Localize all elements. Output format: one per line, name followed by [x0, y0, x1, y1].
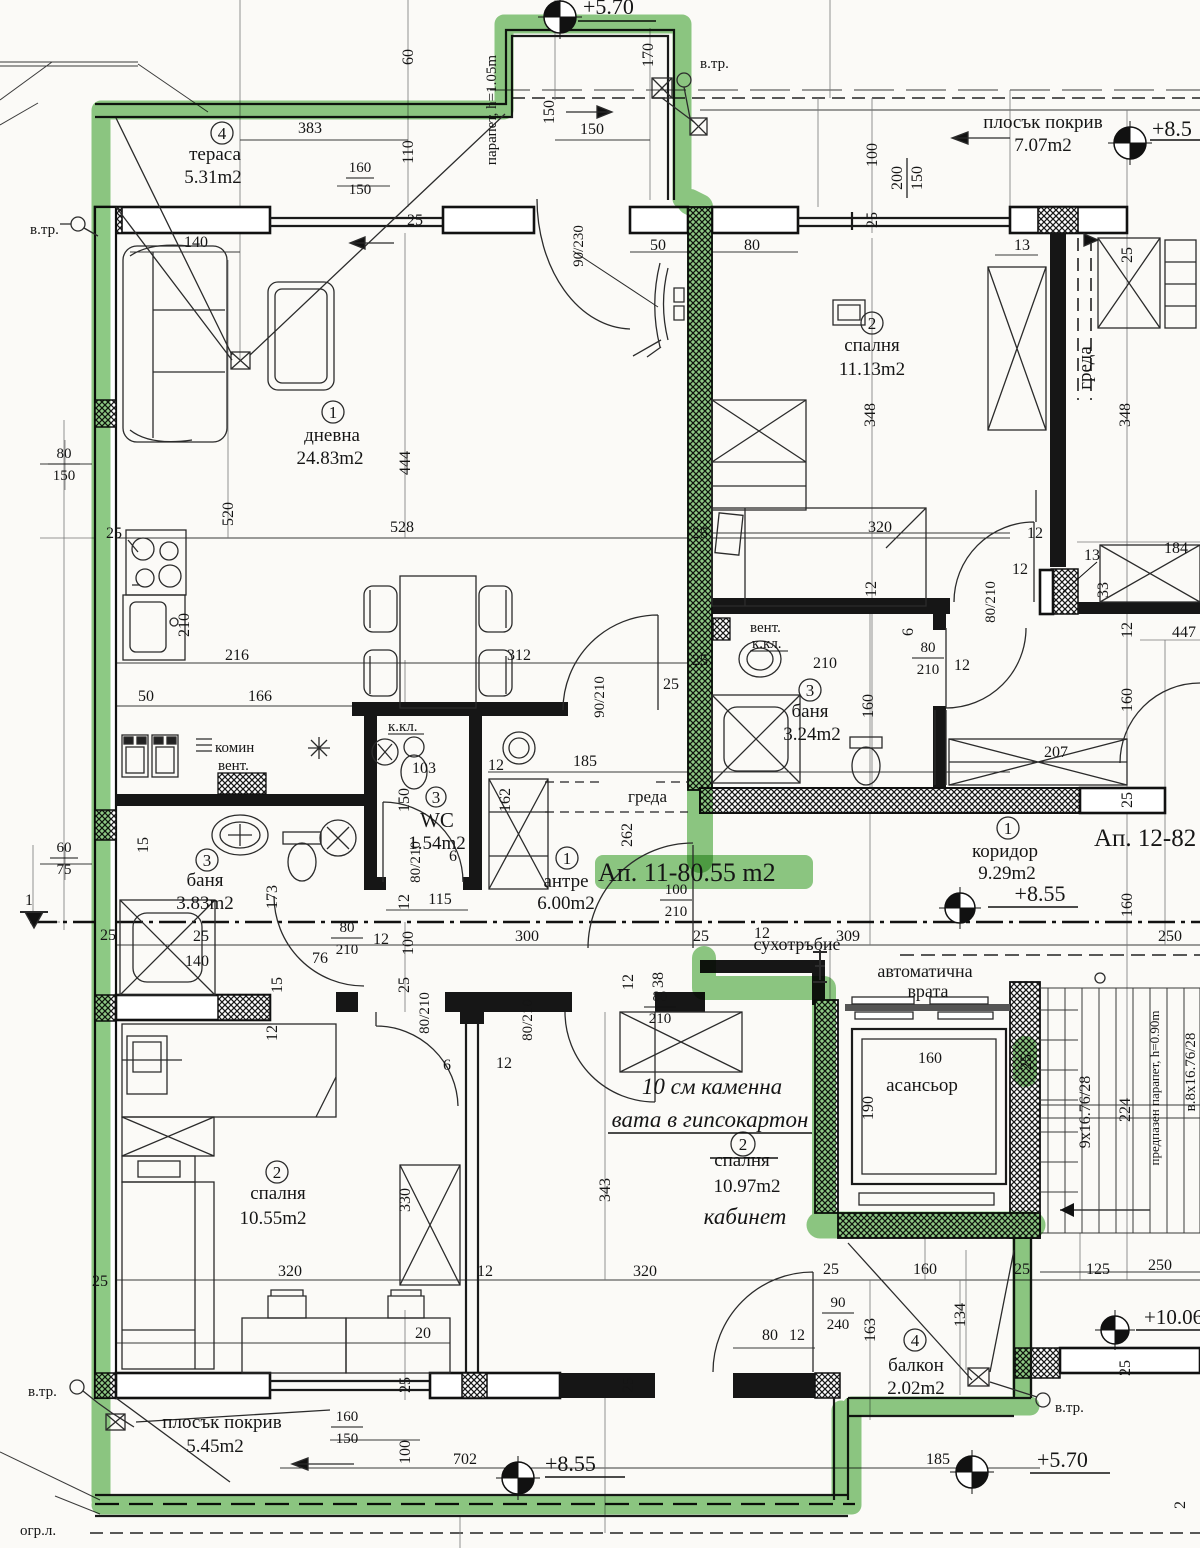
svg-text:асансьор: асансьор	[886, 1075, 958, 1096]
svg-text:2: 2	[1172, 1501, 1189, 1509]
svg-text:25: 25	[407, 212, 423, 229]
svg-text:15: 15	[135, 837, 152, 853]
svg-text:160: 160	[336, 1409, 359, 1425]
svg-text:греда: греда	[1075, 346, 1096, 390]
svg-text:вент.: вент.	[218, 758, 249, 774]
svg-text:12: 12	[396, 894, 413, 910]
svg-text:12: 12	[1027, 525, 1043, 542]
svg-text:25: 25	[1014, 1261, 1030, 1278]
svg-text:24.83m2: 24.83m2	[296, 448, 363, 469]
svg-text:125: 125	[1086, 1261, 1110, 1278]
svg-text:12: 12	[1119, 622, 1136, 638]
svg-text:предпазен парапет, h=0.90m: предпазен парапет, h=0.90m	[1147, 1011, 1162, 1166]
svg-text:110: 110	[400, 140, 417, 163]
svg-text:210: 210	[813, 655, 837, 672]
svg-text:25: 25	[396, 977, 413, 993]
svg-text:огр.л.: огр.л.	[20, 1523, 56, 1539]
svg-text:250: 250	[1158, 928, 1182, 945]
svg-text:12: 12	[488, 757, 504, 774]
svg-text:210: 210	[649, 1011, 672, 1027]
svg-text:1: 1	[563, 849, 572, 868]
svg-text:6.00m2: 6.00m2	[537, 893, 595, 914]
svg-text:320: 320	[868, 519, 892, 536]
svg-text:12: 12	[1012, 561, 1028, 578]
svg-text:160: 160	[349, 160, 372, 176]
svg-text:150: 150	[909, 166, 926, 190]
svg-text:320: 320	[633, 1263, 657, 1280]
svg-text:520: 520	[220, 502, 237, 526]
svg-text:12: 12	[754, 925, 770, 942]
svg-text:170: 170	[640, 43, 657, 67]
svg-text:80/210: 80/210	[983, 581, 999, 623]
svg-text:13: 13	[1084, 547, 1100, 564]
svg-text:160: 160	[918, 1050, 942, 1067]
svg-text:+8.55: +8.55	[1015, 881, 1066, 906]
svg-text:160: 160	[1119, 893, 1136, 917]
svg-text:330: 330	[397, 1188, 414, 1212]
svg-text:комин: комин	[215, 740, 254, 756]
svg-text:25: 25	[106, 525, 122, 542]
svg-text:1: 1	[329, 403, 338, 422]
svg-text:25: 25	[692, 525, 708, 542]
svg-text:25: 25	[663, 676, 679, 693]
svg-text:10.97m2: 10.97m2	[713, 1176, 780, 1197]
svg-text:38: 38	[650, 972, 667, 988]
svg-text:10 см каменна: 10 см каменна	[642, 1074, 782, 1099]
svg-text:12: 12	[863, 581, 880, 597]
svg-text:343: 343	[597, 1178, 614, 1202]
svg-text:160: 160	[913, 1261, 937, 1278]
svg-text:6: 6	[443, 1057, 451, 1074]
svg-text:25: 25	[193, 928, 209, 945]
svg-text:12: 12	[789, 1327, 805, 1344]
svg-text:вент.: вент.	[750, 620, 781, 636]
svg-text:25: 25	[692, 652, 708, 669]
svg-text:спалня: спалня	[844, 335, 900, 356]
svg-text:150: 150	[53, 468, 76, 484]
svg-text:3: 3	[806, 681, 815, 700]
svg-text:80: 80	[340, 920, 355, 936]
svg-text:444: 444	[397, 451, 414, 475]
svg-text:33: 33	[1095, 582, 1112, 598]
svg-text:150: 150	[349, 182, 372, 198]
svg-text:528: 528	[390, 519, 414, 536]
svg-text:в.8х16.76/28: в.8х16.76/28	[1183, 1033, 1199, 1112]
svg-text:Ап. 12-82: Ап. 12-82	[1094, 825, 1196, 852]
svg-text:антре: антре	[543, 871, 588, 892]
svg-text:115: 115	[428, 891, 451, 908]
svg-text:100: 100	[400, 931, 417, 955]
svg-text:парапет, h=1.05m: парапет, h=1.05m	[484, 55, 500, 165]
svg-text:спалня: спалня	[250, 1183, 306, 1204]
svg-text:80: 80	[762, 1327, 778, 1344]
svg-text:7.07m2: 7.07m2	[1014, 135, 1072, 156]
svg-text:кабинет: кабинет	[704, 1204, 787, 1229]
svg-text:5.45m2: 5.45m2	[186, 1436, 244, 1457]
svg-text:плосък покрив: плосък покрив	[983, 112, 1102, 133]
svg-text:90/210: 90/210	[592, 676, 608, 718]
svg-text:+5.70: +5.70	[1037, 1447, 1088, 1472]
svg-text:25: 25	[1119, 792, 1136, 808]
svg-text:207: 207	[1044, 744, 1068, 761]
svg-text:12: 12	[264, 1025, 281, 1041]
svg-text:2: 2	[868, 314, 877, 333]
svg-text:в.тр.: в.тр.	[1055, 1400, 1084, 1416]
svg-text:702: 702	[453, 1451, 477, 1468]
svg-text:312: 312	[507, 647, 531, 664]
svg-text:150: 150	[541, 100, 558, 124]
svg-text:спалня: спалня	[714, 1150, 770, 1171]
svg-text:166: 166	[248, 688, 272, 705]
svg-text:210: 210	[917, 662, 940, 678]
svg-text:80: 80	[744, 237, 760, 254]
svg-text:190: 190	[860, 1096, 877, 1120]
svg-text:12: 12	[477, 1263, 493, 1280]
svg-text:210: 210	[176, 613, 193, 637]
svg-text:в.тр.: в.тр.	[700, 56, 729, 72]
svg-text:216: 216	[225, 647, 249, 664]
svg-text:348: 348	[1117, 403, 1134, 427]
svg-text:140: 140	[184, 234, 208, 251]
svg-text:90/230: 90/230	[571, 225, 587, 267]
svg-text:262: 262	[619, 823, 636, 847]
svg-text:6: 6	[900, 628, 917, 636]
svg-text:80/210: 80/210	[408, 841, 424, 883]
svg-text:к.кл.: к.кл.	[752, 636, 782, 652]
svg-text:185: 185	[573, 753, 597, 770]
svg-text:3: 3	[432, 788, 441, 807]
svg-text:60: 60	[57, 840, 72, 856]
svg-text:100: 100	[665, 882, 688, 898]
svg-text:200: 200	[889, 166, 906, 190]
svg-text:60: 60	[400, 49, 417, 65]
svg-text:100: 100	[864, 143, 881, 167]
svg-text:150: 150	[336, 1431, 359, 1447]
svg-text:дневна: дневна	[304, 425, 360, 446]
svg-text:+8.5: +8.5	[1152, 116, 1192, 141]
svg-text:2: 2	[273, 1163, 282, 1182]
svg-text:к.кл.: к.кл.	[388, 719, 418, 735]
svg-text:150: 150	[396, 788, 413, 812]
svg-text:100: 100	[397, 1440, 414, 1464]
svg-text:1: 1	[1004, 819, 1013, 838]
svg-text:25: 25	[1119, 247, 1136, 263]
svg-text:баня: баня	[186, 870, 223, 891]
svg-text:+8.55: +8.55	[545, 1451, 596, 1476]
svg-text:12: 12	[373, 931, 389, 948]
svg-text:162: 162	[497, 788, 514, 812]
svg-text:76: 76	[312, 950, 328, 967]
svg-text:+5.70: +5.70	[583, 0, 634, 19]
svg-text:224: 224	[1117, 1098, 1134, 1122]
svg-text:6: 6	[449, 848, 457, 865]
svg-text:210: 210	[336, 942, 359, 958]
svg-text:врата: врата	[907, 981, 948, 1001]
svg-text:15: 15	[269, 977, 286, 993]
svg-text:3.24m2: 3.24m2	[783, 724, 841, 745]
svg-text:25: 25	[693, 928, 709, 945]
svg-text:12: 12	[496, 1055, 512, 1072]
svg-text:1: 1	[25, 892, 33, 909]
svg-text:173: 173	[264, 885, 281, 909]
svg-text:25: 25	[100, 927, 116, 944]
svg-text:25: 25	[823, 1261, 839, 1278]
svg-text:плосък покрив: плосък покрив	[162, 1412, 281, 1433]
svg-text:210: 210	[665, 904, 688, 920]
svg-text:320: 320	[278, 1263, 302, 1280]
svg-text:тераса: тераса	[189, 144, 241, 165]
svg-text:80: 80	[57, 446, 72, 462]
svg-text:12: 12	[954, 657, 970, 674]
svg-text:4: 4	[218, 124, 227, 143]
svg-text:240: 240	[827, 1317, 850, 1333]
svg-text:50: 50	[138, 688, 154, 705]
svg-text:9x16.76/28: 9x16.76/28	[1077, 1076, 1094, 1148]
svg-text:автоматична: автоматична	[877, 961, 972, 981]
svg-text:вата в гипсокартон: вата в гипсокартон	[612, 1107, 809, 1132]
svg-text:20: 20	[415, 1325, 431, 1342]
svg-text:150: 150	[580, 121, 604, 138]
svg-text:2.02m2: 2.02m2	[887, 1378, 945, 1399]
svg-text:160: 160	[860, 694, 877, 718]
svg-text:25: 25	[92, 1273, 108, 1290]
svg-text:10.55m2: 10.55m2	[239, 1208, 306, 1229]
svg-text:WC: WC	[420, 808, 454, 832]
svg-text:+10.06: +10.06	[1144, 1305, 1200, 1329]
svg-text:447: 447	[1172, 624, 1196, 641]
svg-text:383: 383	[298, 120, 322, 137]
svg-text:75: 75	[57, 862, 72, 878]
svg-text:баня: баня	[791, 701, 828, 722]
svg-text:80/210: 80/210	[417, 992, 433, 1034]
svg-text:160: 160	[1119, 688, 1136, 712]
svg-text:184: 184	[1164, 540, 1188, 557]
svg-text:3: 3	[203, 851, 212, 870]
svg-text:в.тр.: в.тр.	[30, 222, 59, 238]
svg-text:140: 140	[185, 953, 209, 970]
svg-text:коридор: коридор	[972, 841, 1038, 862]
svg-text:25: 25	[1018, 1054, 1035, 1070]
svg-text:80/210: 80/210	[520, 999, 536, 1041]
svg-text:300: 300	[515, 928, 539, 945]
svg-text:134: 134	[952, 1303, 969, 1327]
svg-text:в.тр.: в.тр.	[28, 1384, 57, 1400]
svg-text:3.83m2: 3.83m2	[176, 893, 234, 914]
svg-text:80: 80	[921, 640, 936, 656]
svg-text:11.13m2: 11.13m2	[839, 359, 905, 380]
svg-text:185: 185	[926, 1451, 950, 1468]
svg-text:90: 90	[831, 1295, 846, 1311]
svg-text:балкон: балкон	[888, 1355, 944, 1376]
svg-text:309: 309	[836, 928, 860, 945]
svg-text:103: 103	[412, 760, 436, 777]
svg-text:13: 13	[1014, 237, 1030, 254]
svg-text:25: 25	[397, 1377, 414, 1393]
svg-text:250: 250	[1148, 1257, 1172, 1274]
svg-text:5.31m2: 5.31m2	[184, 167, 242, 188]
svg-text:4: 4	[911, 1331, 920, 1350]
svg-text:25: 25	[620, 1377, 637, 1393]
svg-text:греда: греда	[628, 787, 667, 806]
svg-text:163: 163	[862, 1318, 879, 1342]
svg-text:50: 50	[650, 237, 666, 254]
svg-text:25: 25	[1117, 1360, 1134, 1376]
svg-text:348: 348	[862, 403, 879, 427]
svg-text:25: 25	[864, 212, 881, 228]
svg-text:12: 12	[620, 974, 637, 990]
svg-text:80: 80	[653, 989, 668, 1005]
